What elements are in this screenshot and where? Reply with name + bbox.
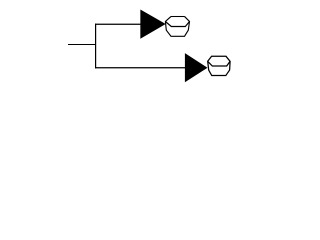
buffer U2 (bottom triangle): [185, 53, 208, 82]
wire: vertical branch: [95, 24, 97, 69]
wire: top branch: [95, 23, 141, 25]
pad P1 (top octagon): [165, 17, 189, 37]
buffer U1 (top triangle): [140, 10, 165, 39]
wire: input stub: [68, 44, 96, 46]
wire: bottom branch: [95, 67, 186, 69]
pad P2 (bottom octagon): [208, 56, 230, 75]
